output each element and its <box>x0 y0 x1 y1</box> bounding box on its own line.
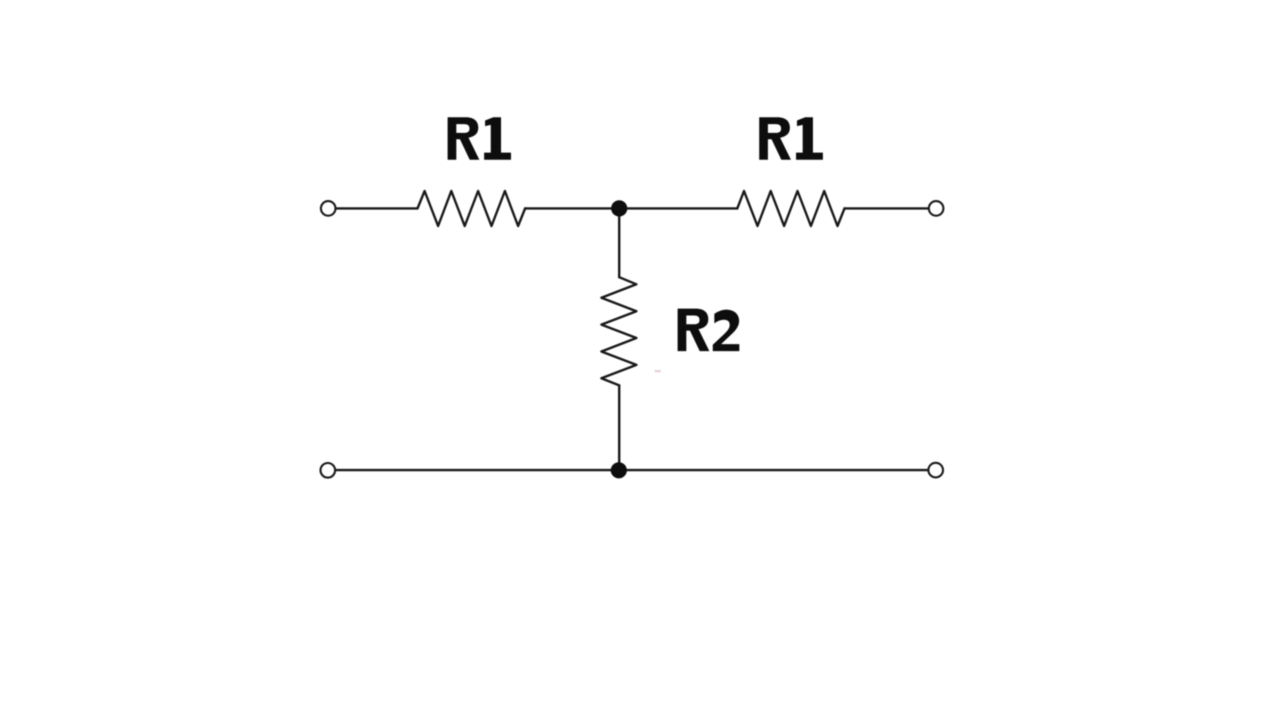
faint artifact mark <box>655 370 662 372</box>
resistor R1 (right) <box>737 191 844 226</box>
resistor R1 (left) <box>418 191 526 226</box>
terminal top-right <box>929 201 944 216</box>
wire vertical upper <box>618 208 620 277</box>
terminal top-left <box>321 201 336 216</box>
label R2 <box>678 309 740 352</box>
wire top-left <box>336 207 418 209</box>
node junction dot top <box>611 200 627 216</box>
label R1 left <box>448 117 511 160</box>
terminal bottom-left <box>321 463 336 478</box>
resistor R2 <box>601 277 636 385</box>
wire bottom <box>336 469 928 471</box>
label R1 right <box>759 117 823 160</box>
terminal bottom-right <box>928 463 943 478</box>
wire top-right <box>845 207 928 209</box>
wire top-middle <box>525 207 737 209</box>
wire vertical lower <box>618 385 620 470</box>
node junction dot bottom <box>611 462 627 478</box>
